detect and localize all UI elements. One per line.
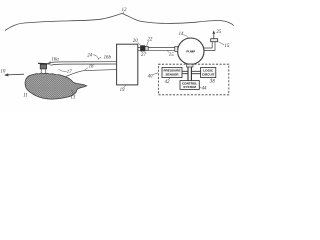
arrow 10 (system designator) [7, 73, 24, 76]
svg-text:44: 44 [202, 87, 207, 92]
leader for 12 [122, 12, 125, 14]
leader for 18 [85, 68, 88, 70]
svg-text:40: 40 [148, 74, 153, 79]
pipe tank to valve [138, 48, 141, 51]
pipe 16a (wellhead to tank, double line) [49, 62, 117, 63]
leader for riser 15 [219, 42, 224, 45]
wellhead 17 (foot valve / strainer on pond) [38, 62, 51, 65]
wavy ground-surface line 12 [5, 13, 234, 30]
leader for 20 [138, 42, 141, 45]
pump U14 circle [178, 38, 204, 64]
svg-text:PUMP: PUMP [186, 50, 195, 54]
svg-text:42: 42 [165, 80, 170, 85]
svg-text:CIRCUIT: CIRCUIT [202, 73, 215, 77]
riser tee fitting [211, 39, 218, 42]
leader for 16a [49, 61, 50, 63]
tank 19 [117, 44, 138, 85]
dashed control enclosure 40 [158, 64, 228, 95]
svg-text:18: 18 [89, 65, 94, 70]
leader for 44 [200, 86, 202, 89]
pump inlet flange [175, 47, 178, 52]
svg-text:27: 27 [141, 53, 146, 58]
svg-text:16b: 16b [104, 56, 112, 61]
svg-text:11: 11 [23, 94, 28, 99]
svg-text:16a: 16a [51, 57, 59, 62]
discharge arrow 25 [213, 33, 215, 38]
leader for 27 [141, 51, 144, 52]
svg-text:15: 15 [169, 53, 174, 58]
leader for 24 [93, 55, 101, 60]
svg-text:19: 19 [120, 88, 125, 93]
connector sensor-stem (double line) [182, 71, 188, 73]
ground line 18 (right of pond to tank) [66, 70, 117, 77]
leader for 19 [124, 85, 126, 87]
leader for 40 [153, 73, 158, 75]
pipe 15 valve to pump (double line) [148, 48, 177, 51]
leader for 15 [167, 51, 169, 53]
leader for 42 [169, 78, 170, 80]
logic circuit box [201, 67, 216, 77]
valve outlet fitting 22 [145, 46, 148, 50]
pump stem flange [187, 64, 193, 67]
svg-text:25: 25 [216, 30, 221, 35]
leader for 13 [71, 90, 74, 94]
leader for 14 [184, 35, 189, 39]
leader for 17 [59, 69, 67, 71]
svg-text:20: 20 [133, 39, 138, 44]
svg-text:14: 14 [179, 32, 184, 37]
pressure sensor box [162, 67, 182, 77]
connector stem-logic (double line) [191, 71, 200, 73]
svg-text:10: 10 [0, 70, 5, 75]
leader for 22 [147, 41, 149, 46]
control system box [180, 81, 199, 90]
outlet pipe (pump to riser, double line) [204, 48, 215, 51]
leader for 38 [210, 77, 213, 80]
svg-text:38: 38 [210, 79, 215, 84]
svg-text:24: 24 [87, 53, 92, 58]
svg-text:SYSTEM: SYSTEM [183, 85, 196, 89]
pond / liquid pool 11 (hatched blob) [25, 73, 87, 99]
svg-text:SENSOR: SENSOR [165, 73, 179, 77]
valve 20 (solid body) [140, 46, 145, 52]
svg-text:13: 13 [70, 95, 75, 100]
stem to control (double line) [188, 67, 191, 80]
riser pipe (vertical double line) [212, 42, 215, 51]
svg-text:12: 12 [122, 8, 127, 13]
svg-text:15: 15 [224, 44, 229, 49]
